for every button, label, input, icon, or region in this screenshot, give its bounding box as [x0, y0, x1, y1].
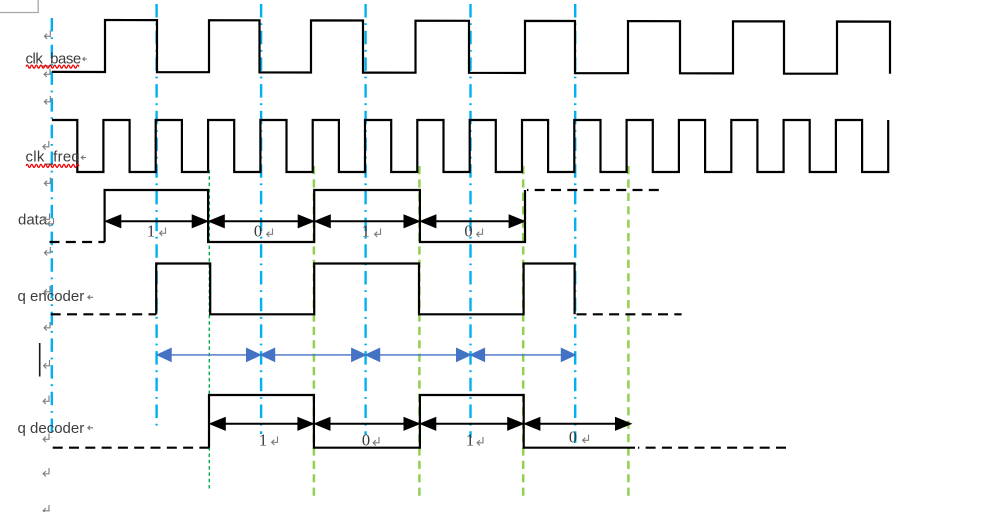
- decoder measure arrow 1: [211, 418, 312, 429]
- decoder measure arrow 3: [422, 418, 523, 429]
- data measure arrow 3: [316, 216, 418, 227]
- guide line cyan V1 x=52: [51, 18, 53, 438]
- paragraph marks left column: [43, 31, 54, 512]
- waveform data dashed tail high: [527, 189, 660, 191]
- waveform clk_freq: [52, 120, 888, 172]
- waveform q decoder dashed lead-in low: [53, 447, 209, 449]
- data measure arrow 2: [210, 216, 313, 227]
- svg-text:1: 1: [259, 431, 267, 450]
- blue span arrow 3: [366, 349, 470, 362]
- svg-text:0: 0: [464, 221, 472, 240]
- guide line cyan V3 x=260.5: [260, 4, 262, 434]
- squiggle under clk_freq: [26, 164, 79, 167]
- return marks after bit labels (decoder row): [272, 435, 589, 446]
- return marks after bit labels (data row): [160, 228, 483, 237]
- page margin corner mark: [0, 0, 38, 13]
- stray vertical bar: [39, 343, 41, 377]
- waveform q encoder dashed tail low: [577, 313, 682, 315]
- squiggle under clk_base: [26, 65, 79, 68]
- guide line cyan V2 x=156.5: [155, 4, 157, 429]
- decoder measure arrow 4: [526, 418, 630, 429]
- guide line cyan V5 x=470.5: [469, 4, 471, 438]
- svg-text:1: 1: [362, 221, 370, 240]
- blue span arrow 1: [158, 349, 261, 362]
- waveform clk_base: [52, 20, 890, 74]
- svg-text:1: 1: [466, 431, 474, 450]
- waveform q decoder solid: [209, 395, 635, 448]
- guide line light green x=419.4: [418, 166, 421, 496]
- waveform q decoder dashed tail low: [638, 447, 786, 449]
- guide line cyan V6 x=575.2: [574, 4, 576, 443]
- waveform data dashed lead-in low: [50, 241, 105, 243]
- svg-text:0: 0: [254, 221, 262, 240]
- svg-text:q decoder: q decoder: [18, 420, 85, 437]
- svg-text:data: data: [18, 212, 48, 229]
- decoder measure arrow 2: [316, 418, 419, 429]
- svg-text:q encoder: q encoder: [18, 288, 85, 305]
- blue span arrow 4: [471, 349, 575, 362]
- svg-text:0: 0: [362, 431, 370, 450]
- data measure arrow 1: [107, 216, 207, 227]
- guide line light green x=313.9: [313, 166, 316, 496]
- guide line dark green x=209.3: [208, 170, 210, 490]
- waveform q encoder dashed lead-in low: [51, 313, 157, 315]
- waveform data solid: [105, 190, 525, 242]
- svg-text:clk_freq: clk_freq: [26, 149, 81, 166]
- waveform q encoder solid: [156, 264, 574, 315]
- guide line cyan V4 x=365.6: [364, 4, 366, 435]
- svg-text:1: 1: [147, 221, 155, 240]
- small end-of-line arrows after labels: [81, 57, 93, 430]
- data measure arrow 4: [422, 216, 524, 227]
- guide line light green x=523.2: [522, 166, 525, 499]
- blue span arrow 2: [261, 349, 365, 362]
- guide line light green x=628.4: [627, 166, 630, 499]
- svg-text:0: 0: [569, 428, 577, 447]
